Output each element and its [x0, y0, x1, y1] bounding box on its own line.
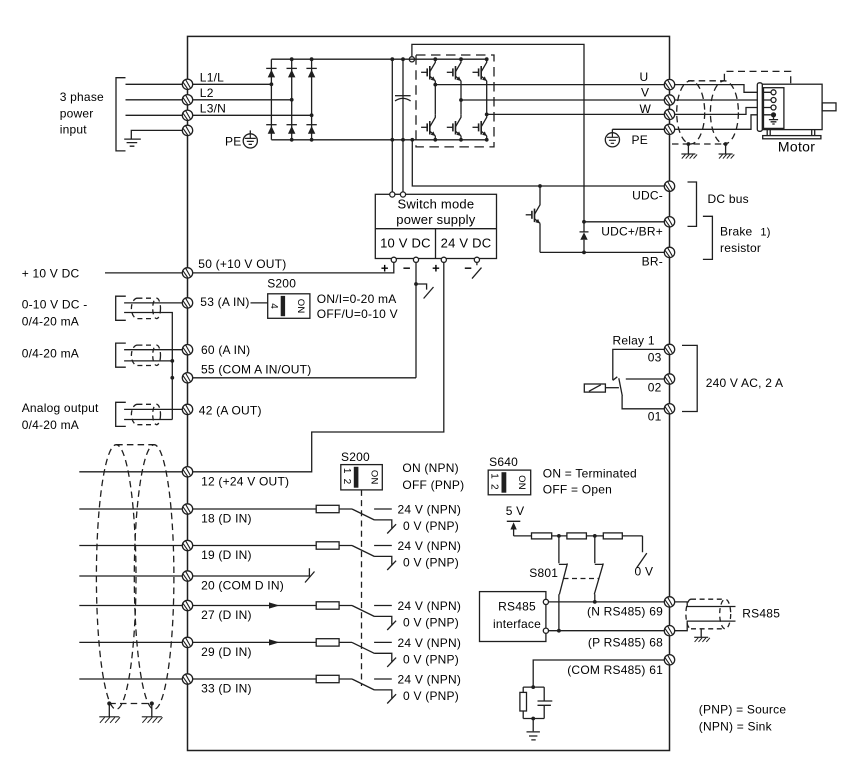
digital cable shield ellipse 2 — [134, 445, 174, 710]
terminal 68 — [664, 626, 674, 636]
wire 55 COM to 10V- — [193, 377, 416, 379]
svg-text:4: 4 — [268, 303, 279, 309]
3 phase input bracket — [116, 78, 126, 151]
dashed PE to motor frame — [724, 71, 790, 84]
input row 18 — [193, 505, 396, 533]
node drain 60 — [170, 359, 174, 363]
node box out 69 — [543, 599, 548, 604]
shield top tangent — [688, 80, 724, 82]
drive enclosure main box — [188, 36, 670, 750]
terminal V — [664, 95, 674, 105]
node bottom rail col2 — [290, 138, 294, 142]
svg-text:Switch mode: Switch mode — [397, 197, 474, 212]
bracket relay contacts — [682, 345, 697, 411]
svg-text:18 (D IN): 18 (D IN) — [201, 511, 252, 525]
cable shield 53 — [131, 298, 160, 318]
terminal 61 — [664, 655, 674, 665]
digital shield bottom tangent — [109, 703, 152, 705]
terminal 20 — [182, 571, 192, 581]
capacitor DC link — [395, 96, 411, 101]
svg-text:5 V: 5 V — [506, 504, 525, 518]
svg-text:L3/N: L3/N — [200, 101, 226, 115]
svg-text:0/4-20 mA: 0/4-20 mA — [22, 347, 79, 361]
terminal 12 — [182, 467, 192, 477]
wire UDC+ — [584, 221, 664, 223]
svg-text:1: 1 — [341, 468, 352, 474]
svg-text:0-10 V DC -: 0-10 V DC - — [22, 297, 88, 311]
wire L3 to rectifier — [193, 114, 312, 116]
svg-text:S640: S640 — [489, 455, 518, 469]
wire 61 — [533, 660, 664, 687]
resistor R3 — [603, 533, 622, 539]
svg-text:01: 01 — [648, 410, 662, 424]
terminal L2 — [182, 95, 192, 105]
motor base — [767, 130, 815, 136]
wire 53 shield drain — [124, 313, 172, 361]
terminal UDC- — [664, 181, 674, 191]
svg-text:53 (A IN): 53 (A IN) — [200, 295, 249, 309]
svg-text:UDC+/BR+: UDC+/BR+ — [601, 225, 663, 239]
terminal 69 — [664, 597, 674, 607]
svg-text:(NPN) = Sink: (NPN) = Sink — [699, 719, 773, 733]
switch mode power supply box — [375, 194, 496, 258]
wire 18 left — [79, 508, 182, 510]
node bus2 top — [401, 57, 405, 61]
svg-text:ON (NPN): ON (NPN) — [402, 461, 458, 475]
diode D4 bottom col1 — [266, 125, 276, 134]
input row 19 — [193, 542, 396, 570]
node L2 bridge — [290, 98, 294, 102]
svg-text:24 V (NPN): 24 V (NPN) — [398, 636, 462, 650]
terminal 03 — [664, 344, 674, 354]
svg-text:S200: S200 — [341, 450, 370, 464]
node leg3 top — [485, 57, 489, 61]
svg-text:PE: PE — [225, 135, 241, 149]
wire DC bus line 2 — [402, 59, 404, 192]
terminal 60 — [182, 345, 192, 355]
brake diode D7 — [580, 222, 589, 253]
svg-text:interface: interface — [493, 617, 541, 631]
svg-text:24 V (NPN): 24 V (NPN) — [398, 503, 462, 517]
wire 53 to S200 — [251, 302, 268, 304]
node 10V- tap — [414, 282, 418, 286]
svg-text:−: − — [464, 260, 472, 275]
terminal 27 — [182, 600, 192, 610]
wire 60 top — [124, 349, 182, 351]
node RC top — [531, 685, 535, 689]
relay contact arm — [619, 378, 623, 396]
node leg2 top — [459, 57, 463, 61]
node L1 bridge — [270, 82, 274, 86]
wire shield drain d2 — [151, 704, 153, 717]
diode D5 bottom col2 — [287, 125, 297, 134]
svg-text:(COM RS485) 61: (COM RS485) 61 — [567, 663, 663, 677]
node bus1 bottom rail — [390, 138, 394, 142]
svg-text:Brake: Brake — [720, 224, 753, 238]
svg-text:0/4-20 mA: 0/4-20 mA — [22, 314, 79, 328]
wire BR- — [540, 251, 664, 253]
wire 19 left — [79, 545, 182, 547]
wire 42 shield drain — [124, 419, 172, 421]
svg-text:+ 10 V DC: + 10 V DC — [22, 267, 80, 281]
bracket DC bus — [688, 182, 697, 226]
diode D3 top col3 — [306, 68, 316, 77]
switch at 24V- — [472, 262, 482, 278]
svg-text:19 (D IN): 19 (D IN) — [201, 548, 252, 562]
wire L1 input — [126, 83, 183, 85]
input row 33 — [193, 675, 396, 703]
svg-text:ON: ON — [516, 475, 527, 490]
IGBT lower leg2 — [447, 100, 461, 140]
dip switch S640 — [488, 470, 531, 495]
wire 69 to cable — [675, 602, 736, 607]
node V midpoint — [459, 98, 463, 102]
ground chassis RS485 — [694, 637, 710, 642]
svg-text:24 V (NPN): 24 V (NPN) — [398, 539, 462, 553]
svg-text:−: − — [403, 260, 411, 275]
svg-text:0 V: 0 V — [635, 565, 654, 579]
digital cable shield ellipse 1 — [96, 445, 136, 710]
node RC bottom — [531, 717, 535, 721]
svg-text:(P RS485) 68: (P RS485) 68 — [588, 635, 663, 649]
svg-text:29 (D IN): 29 (D IN) — [201, 645, 252, 659]
node shield gnd 2 — [724, 142, 728, 146]
switch to 0V — [637, 536, 647, 568]
svg-text:12 (+24 V OUT): 12 (+24 V OUT) — [201, 474, 289, 488]
node bus1 top — [390, 57, 394, 61]
switch S801 right — [594, 536, 603, 602]
rectifier bridge rails and columns — [271, 59, 486, 140]
svg-text:S801: S801 — [529, 566, 558, 580]
svg-text:ON = Terminated: ON = Terminated — [543, 466, 637, 480]
motor cable shield ellipse 2 — [710, 81, 738, 144]
dip switch S200 analog — [268, 294, 310, 319]
node top rail col2 — [290, 57, 294, 61]
terminal 29 — [182, 637, 192, 647]
node smps out 10+ — [391, 257, 396, 262]
svg-text:Analog output: Analog output — [22, 401, 99, 415]
svg-text:3 phase: 3 phase — [60, 90, 104, 104]
motor earth symbol — [769, 117, 778, 124]
svg-text:33 (D IN): 33 (D IN) — [201, 681, 252, 695]
svg-text:OFF = Open: OFF = Open — [543, 482, 612, 496]
node drain 55 — [170, 376, 174, 380]
svg-text:0 V (PNP): 0 V (PNP) — [403, 519, 459, 533]
svg-text:2: 2 — [341, 479, 352, 485]
PE symbol right — [605, 133, 619, 147]
node brake chopper tap — [538, 184, 542, 188]
motor terminal box — [764, 88, 784, 129]
svg-text:24 V (NPN): 24 V (NPN) — [398, 673, 462, 687]
node smps in 1 — [390, 192, 395, 197]
wire PE stub to circle — [249, 130, 251, 133]
terminal W — [664, 109, 674, 119]
terminal 53 — [182, 298, 192, 308]
RS485 interface box — [480, 592, 546, 642]
wire V output — [461, 99, 664, 101]
svg-text:2: 2 — [489, 484, 500, 490]
shield bottom tangent — [672, 143, 726, 145]
inverter dashed box — [416, 55, 494, 147]
input row 29 — [193, 639, 396, 667]
node smps out 24+ — [441, 257, 446, 262]
node shield drain d1 — [107, 701, 111, 705]
ground earth RC — [527, 732, 540, 740]
wire +10V DC lead — [105, 272, 182, 274]
input row 20 COM — [193, 568, 315, 582]
wire shield gnd stem 2 — [725, 144, 727, 154]
dip switch S200 digital — [341, 465, 383, 490]
node UDC- tap — [410, 138, 414, 142]
wire 69 — [549, 601, 665, 603]
node bus2 bottom rail — [401, 138, 405, 142]
svg-text:BR-: BR- — [642, 255, 663, 269]
terminal 55 — [182, 373, 192, 383]
svg-text:0 V (PNP): 0 V (PNP) — [403, 616, 459, 630]
inner box around inverter to DC terminals — [412, 44, 584, 221]
wire L2 to rectifier — [193, 99, 292, 101]
terminal U — [664, 79, 674, 89]
svg-text:L1/L: L1/L — [200, 70, 224, 84]
IGBT upper leg1 — [421, 59, 435, 84]
svg-text:24 V (NPN): 24 V (NPN) — [398, 599, 462, 613]
terminal PE in — [182, 125, 192, 135]
svg-text:PE: PE — [632, 133, 648, 147]
svg-text:L2: L2 — [200, 86, 214, 100]
resistor R1 — [532, 533, 552, 539]
terminal PE out — [664, 124, 674, 134]
cable shield 60 — [131, 345, 160, 365]
svg-text:input: input — [60, 123, 88, 137]
node S801 to 69 — [593, 600, 597, 604]
switch tap at 10V- — [416, 284, 434, 299]
wire 10V+ to terminal 50 — [193, 262, 394, 273]
wire 68 — [549, 630, 665, 632]
wire 12 left — [79, 471, 182, 473]
wire W output — [487, 113, 665, 115]
diode D1 top col1 — [266, 68, 276, 77]
svg-text:RS485: RS485 — [498, 600, 536, 614]
svg-text:V: V — [641, 85, 649, 99]
svg-text:0 V (PNP): 0 V (PNP) — [403, 556, 459, 570]
svg-text:RS485: RS485 — [742, 607, 780, 621]
wire shield drain d1 — [108, 704, 110, 717]
terminal L1 — [182, 79, 192, 89]
node L3 bridge — [310, 113, 314, 117]
wire 68 to cable — [675, 621, 736, 631]
terminal L3 — [182, 110, 192, 120]
wire 53 top — [124, 302, 182, 304]
wire 27 left — [79, 605, 182, 607]
node W midpoint — [485, 113, 489, 117]
RS485 cable shield — [686, 599, 731, 629]
node leg1 top — [433, 57, 437, 61]
terminal 42 — [182, 404, 192, 414]
wire relay 03 — [613, 349, 665, 380]
ground chassis 2 — [719, 154, 735, 159]
wire RC to ground — [532, 719, 534, 732]
motor body — [762, 84, 822, 129]
svg-text:power: power — [60, 107, 94, 121]
node rail 1 — [557, 534, 561, 538]
wire 5V rail — [514, 535, 643, 537]
5V supply symbol — [507, 521, 521, 536]
ground chassis 1 — [681, 154, 697, 159]
node leg1 bottom — [433, 138, 437, 142]
node top rail col3 — [310, 57, 314, 61]
wire PE input to earth — [131, 130, 182, 139]
wire U to motor — [675, 85, 771, 93]
node U midpoint — [433, 83, 437, 87]
svg-text:Motor: Motor — [778, 139, 815, 155]
svg-text:0 V (PNP): 0 V (PNP) — [403, 653, 459, 667]
svg-text:60 (A IN): 60 (A IN) — [201, 343, 250, 357]
RC network — [520, 687, 552, 718]
terminal 18 — [182, 504, 192, 514]
svg-text:W: W — [640, 102, 652, 116]
wire 10V- down to COM — [415, 262, 417, 377]
terminal 33 — [182, 674, 192, 684]
node diode top — [582, 220, 586, 224]
svg-text:(PNP) = Source: (PNP) = Source — [699, 702, 787, 716]
motor shaft — [822, 103, 836, 111]
wire 60 shield drain — [124, 360, 172, 362]
node shield drain d2 — [150, 701, 154, 705]
diode D2 top col2 — [287, 68, 297, 77]
svg-text:24 V DC: 24 V DC — [441, 235, 492, 250]
bracket cable 42 — [116, 402, 126, 426]
wire 33 left — [79, 678, 182, 680]
ground earth input — [124, 139, 141, 146]
motor cable shield ellipse 1 — [677, 81, 705, 144]
PE symbol left — [243, 134, 257, 148]
resistor R2 — [567, 533, 587, 539]
node diode bottom — [582, 251, 586, 255]
brake IGBT Q7 — [526, 186, 540, 252]
svg-text:1): 1) — [760, 226, 770, 238]
svg-text:power supply: power supply — [396, 212, 476, 227]
node leg3 bottom — [485, 138, 489, 142]
svg-text:+: + — [432, 260, 440, 275]
node bottom rail col3 — [310, 138, 314, 142]
svg-text:ON/I=0-20 mA: ON/I=0-20 mA — [317, 292, 397, 306]
wire L2 input — [126, 99, 183, 101]
motor terminal circles — [771, 90, 776, 118]
svg-text:42 (A OUT): 42 (A OUT) — [199, 403, 262, 417]
wire cable shield gnd — [700, 629, 702, 638]
node smps out 10- — [413, 257, 418, 262]
svg-text:0 V (PNP): 0 V (PNP) — [403, 689, 459, 703]
svg-text:U: U — [640, 70, 649, 84]
svg-text:55 (COM A IN/OUT): 55 (COM A IN/OUT) — [201, 362, 311, 376]
ground chassis d1 — [99, 717, 120, 723]
svg-text:03: 03 — [648, 351, 662, 365]
bracket brake resistor — [703, 216, 713, 259]
IGBT lower leg1 — [421, 85, 435, 140]
wire U output — [435, 84, 664, 86]
wire V to motor — [675, 99, 771, 101]
svg-text:DC bus: DC bus — [708, 192, 749, 206]
dashed S200 link line — [361, 490, 363, 686]
ground chassis d2 — [142, 717, 163, 723]
svg-text:ON: ON — [369, 470, 380, 485]
input row 27 — [193, 602, 396, 630]
wire UDC- tap from bottom rail — [412, 140, 664, 186]
svg-text:(N RS485) 69: (N RS485) 69 — [587, 605, 663, 619]
node rail 2 — [593, 534, 597, 538]
wire relay 01 — [622, 396, 664, 409]
svg-text:1: 1 — [489, 473, 500, 479]
digital shield top tangent — [116, 444, 154, 446]
wire drain bus — [171, 361, 173, 420]
node smps out 24- — [474, 257, 479, 262]
wire PE to motor — [675, 115, 771, 130]
terminal 19 — [182, 540, 192, 550]
wire PE output — [612, 129, 664, 133]
switch S801 left — [559, 536, 568, 631]
bracket cable 53 — [116, 296, 126, 320]
terminal 02 — [664, 374, 674, 384]
IGBT upper leg3 — [473, 59, 487, 114]
svg-text:0/4-20 mA: 0/4-20 mA — [22, 418, 79, 432]
dashed S801 link — [564, 578, 600, 580]
svg-text:27 (D IN): 27 (D IN) — [201, 608, 252, 622]
svg-text:UDC-: UDC- — [632, 188, 663, 202]
relay coil — [584, 384, 619, 392]
wire 20 left — [79, 575, 182, 577]
terminal 50 — [182, 268, 192, 278]
IGBT upper leg2 — [447, 59, 461, 100]
wire L1 to rectifier — [193, 83, 272, 85]
node box out 68 — [543, 628, 548, 633]
svg-text:20 (COM D IN): 20 (COM D IN) — [201, 578, 284, 592]
wire 42 top — [124, 408, 182, 410]
wire 24V+ to terminal 12 — [193, 262, 444, 471]
svg-text:50 (+10 V OUT): 50 (+10 V OUT) — [198, 257, 286, 271]
node smps in 2 — [400, 192, 405, 197]
svg-text:240 V AC, 2 A: 240 V AC, 2 A — [706, 376, 784, 390]
svg-text:OFF/U=0-10 V: OFF/U=0-10 V — [317, 307, 398, 321]
wire DC bus line 1 — [391, 59, 393, 192]
wire shield gnd stem 1 — [687, 144, 689, 154]
svg-text:resistor: resistor — [720, 241, 761, 255]
terminal UDC+/BR+ — [664, 217, 674, 227]
wire L3 input — [126, 114, 183, 116]
terminal 01 — [664, 404, 674, 414]
svg-text:ON: ON — [295, 299, 306, 314]
node S801 to 68 — [557, 629, 561, 633]
wire relay 02 — [626, 378, 665, 380]
svg-text:Relay 1: Relay 1 — [613, 333, 655, 347]
svg-text:10 V DC: 10 V DC — [380, 235, 431, 250]
node shield gnd 1 — [687, 142, 691, 146]
svg-text:OFF (PNP): OFF (PNP) — [402, 478, 464, 492]
bracket cable 60 — [116, 343, 126, 367]
svg-text:02: 02 — [648, 381, 662, 395]
cable shield 42 — [131, 404, 160, 424]
wire 29 left — [79, 641, 182, 643]
diode D6 bottom col3 — [306, 125, 316, 134]
terminal BR- — [664, 247, 674, 257]
node leg2 bottom — [459, 138, 463, 142]
svg-text:S200: S200 — [267, 277, 296, 291]
IGBT lower leg3 — [473, 114, 487, 140]
node: inner box to +rail circle — [409, 57, 414, 62]
wire W to motor — [675, 108, 771, 115]
motor flange — [757, 83, 762, 132]
